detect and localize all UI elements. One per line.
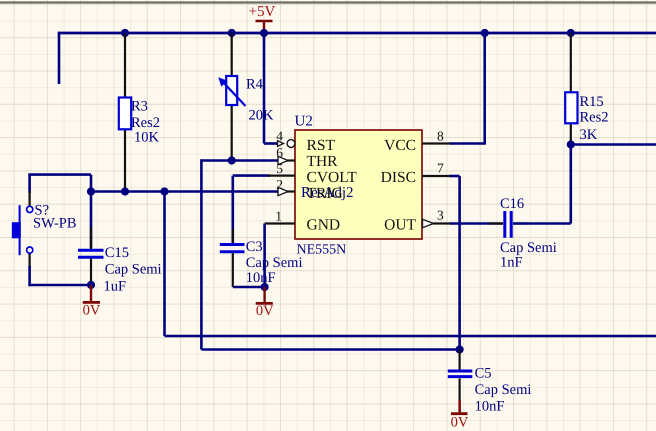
svg-text:OUT: OUT <box>384 217 416 234</box>
svg-text:7: 7 <box>437 161 444 176</box>
svg-text:+5V: +5V <box>249 4 276 20</box>
svg-text:R3: R3 <box>131 99 148 115</box>
svg-text:0V: 0V <box>83 302 101 318</box>
svg-text:3K: 3K <box>580 127 598 143</box>
svg-text:C15: C15 <box>105 245 129 261</box>
svg-text:Cap Semi: Cap Semi <box>475 382 532 398</box>
svg-text:0V: 0V <box>451 414 469 430</box>
svg-text:NE555N: NE555N <box>297 243 347 258</box>
svg-text:Cap Semi: Cap Semi <box>105 262 162 278</box>
svg-text:C3: C3 <box>246 239 263 255</box>
svg-text:20K: 20K <box>249 108 275 124</box>
svg-text:10nF: 10nF <box>475 398 505 414</box>
svg-text:CVOLT: CVOLT <box>307 169 358 186</box>
svg-text:1uF: 1uF <box>104 278 127 294</box>
svg-text:THR: THR <box>307 153 339 170</box>
svg-text:SW-PB: SW-PB <box>33 216 77 232</box>
svg-text:10K: 10K <box>134 129 160 145</box>
svg-text:RST: RST <box>307 137 336 154</box>
svg-text:VCC: VCC <box>384 137 416 154</box>
svg-text:TRIG: TRIG <box>307 185 343 202</box>
svg-text:C16: C16 <box>500 196 524 212</box>
svg-text:1: 1 <box>275 209 282 224</box>
svg-text:DISC: DISC <box>381 169 416 186</box>
svg-text:C5: C5 <box>475 366 492 382</box>
svg-text:Res2: Res2 <box>580 110 609 126</box>
svg-text:U2: U2 <box>295 114 313 130</box>
svg-text:GND: GND <box>307 217 341 234</box>
svg-text:3: 3 <box>437 208 444 223</box>
svg-text:10nF: 10nF <box>246 270 276 286</box>
svg-text:R4: R4 <box>246 76 264 92</box>
svg-text:Cap Semi: Cap Semi <box>246 255 303 271</box>
svg-text:8: 8 <box>437 129 444 144</box>
svg-text:0V: 0V <box>256 303 274 319</box>
svg-text:1nF: 1nF <box>500 255 523 271</box>
svg-text:R15: R15 <box>580 94 604 110</box>
